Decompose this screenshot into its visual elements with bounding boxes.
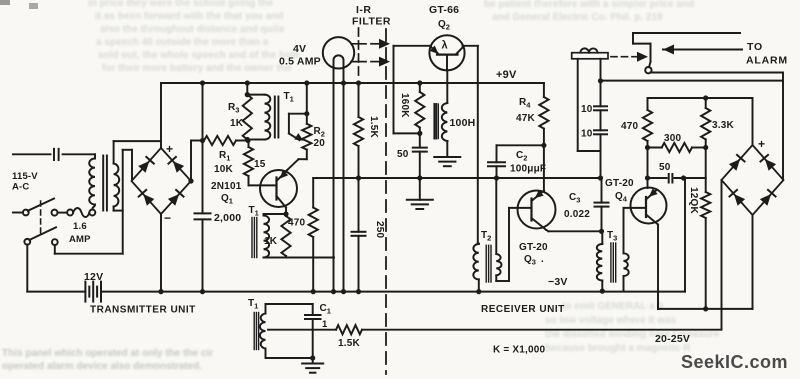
wire base Q1 [249,184,277,186]
label 50 rx [659,162,671,173]
wire C2 bottom [494,166,499,180]
arrow dash 2 [371,57,390,67]
wire R2 bottom to Q1 emitter [287,150,307,170]
label 10 upper [581,104,593,115]
label 4V [293,43,306,55]
capacitor 250 [352,232,366,236]
wire Q4 emitter [647,178,649,188]
transistor Q3 GT-20 [518,190,556,230]
label T3 [607,230,617,243]
wire top rail [161,82,544,84]
wire BR1 bottom down [160,214,162,292]
wire Q3 collector to C3 [546,229,604,234]
label 50 mid [397,149,409,160]
svg-text:100H: 100H [450,117,476,129]
label RECEIVER UNIT [481,304,565,315]
capacitor C2 100uuF [488,162,505,166]
transformer T core [103,156,107,211]
svg-text:Q1: Q1 [221,193,233,206]
wire stub left of S1a [13,212,23,214]
arrow dash 1 [371,39,390,49]
label C1 [320,303,331,316]
label 100uuF [510,164,546,175]
label 2,000 [214,212,241,224]
resistor 470 osc [309,178,318,294]
wire relay left lead [578,59,601,151]
watermark SeekIC.com [681,352,788,373]
transformer T3 primary [597,231,605,293]
wire 115V AC input top [13,153,51,155]
battery 12V [85,282,101,302]
capacitor 50 rx [648,174,706,183]
transistor Q1 [260,170,297,214]
wire 470/3.3K top [648,97,753,99]
ground under 100H [434,141,460,166]
transformer T1 bottom core [254,313,258,350]
label + BR1 [166,142,173,156]
wire bottom rail [101,178,685,294]
transformer T2 core [486,245,491,282]
wire R4 to Q3 emitter [543,145,545,190]
svg-text:0.022: 0.022 [564,209,590,220]
diode BR1 bottom-left [139,190,155,206]
relay switch contact [645,62,651,74]
wire S1b to battery [26,245,28,292]
wire T2 sec top [495,178,497,254]
label 1.5K bottom [338,338,361,349]
label + BR2 [758,137,765,151]
svg-text:Q4: Q4 [615,191,628,204]
label TRANSMITTER UNIT [90,305,196,316]
label 300 [664,133,682,144]
wire T1b top to C1 [266,304,313,315]
transformer T3 secondary [624,253,629,276]
resistor 160K [415,80,424,133]
faint scan bleed-through text top right [484,0,694,10]
wire T1 mid top [264,214,287,216]
svg-text:47K: 47K [516,113,536,124]
label 250 rot [374,221,385,239]
capacitor AC input series [54,149,59,160]
resistor 3.3K [701,95,710,150]
svg-text:GT-66: GT-66 [429,4,459,16]
svg-text:A-C: A-C [12,182,30,193]
wire 3.3K junction down to 12QK [705,148,707,193]
label FILTER [352,16,391,28]
lamp 4V 0.5AMP [323,37,354,68]
svg-text:15: 15 [254,159,266,170]
label 20-25V [655,333,690,345]
switch S1b right contact [52,239,58,245]
label Q1 [221,193,233,206]
svg-text:T1: T1 [284,91,294,104]
label R3 [228,102,239,115]
fuse 1.6A [52,208,96,217]
capacitor C3 0.022 [595,178,609,231]
wire alarm arrow [663,45,742,55]
label GT-20 Q4 [605,178,634,204]
corner scan marks [0,0,10,5]
resistor R1 10K [204,136,236,145]
label C2 [516,150,527,163]
label 15 [254,159,266,170]
svg-text:T1: T1 [248,298,258,311]
wire long vertical from rail to 2000 cap [200,80,205,213]
svg-text:AMP: AMP [69,234,91,245]
wire lower right bus [658,291,753,309]
wire bracket top [633,33,740,44]
svg-text:Q3: Q3 [524,254,536,267]
wire C2 top [497,145,544,162]
wire BR1 right up to R1 [188,141,193,184]
svg-text:+: + [758,137,765,151]
svg-text:C1: C1 [320,303,331,316]
svg-text:TO: TO [747,41,763,53]
label Q2 [438,19,450,32]
label TO [747,41,763,53]
faint scan bleed-through text bottom right [562,301,664,312]
inductor 100H core [434,104,438,139]
svg-text:T2: T2 [481,230,491,243]
svg-text:2,000: 2,000 [214,212,241,224]
wiper arm R2 [289,114,307,141]
diode BR2 top-left [729,155,745,171]
svg-text:50: 50 [659,162,671,173]
transformer T2 primary [473,244,478,279]
transformer T3 core [611,243,616,282]
wire lamp left lead [331,68,336,294]
svg-text:λ: λ [442,40,448,52]
label GT-20 Q3 [519,242,548,267]
label R2 [314,126,325,139]
wire relay right lead [598,59,603,107]
capacitor C1 [305,315,321,319]
label 1.5K rot [368,116,379,139]
wire rail to R3 [245,80,250,94]
wire Q2 left lead [394,46,432,134]
label T2 [481,230,491,243]
label C1 1 [322,319,328,330]
faint scan bleed-through text top left [88,0,273,9]
wire T3 sec bottom [623,276,625,291]
label R4 [519,97,531,110]
wire 2000 cap to bottom rail [200,219,205,294]
relay coil [572,48,608,58]
svg-text:GT-20: GT-20 [519,242,548,253]
resistor 1.5K bottom [336,325,362,334]
wire receiver supply rail [601,81,784,180]
transformer T1 top winding [265,95,271,140]
label R2 20 [314,138,326,149]
ground under 50 [407,200,433,209]
svg-text:FILTER: FILTER [352,16,391,28]
svg-text:1K: 1K [264,236,278,247]
svg-text:T1: T1 [249,205,259,218]
wire rail to R2 [304,80,309,116]
diode BR1 top-right [169,157,185,173]
svg-text:I-R: I-R [356,4,372,16]
wire battery row left [27,291,85,293]
label T1 mid [249,205,259,218]
svg-text:C2: C2 [516,150,527,163]
wire T2 primary bottom [476,279,481,294]
svg-text:−: − [164,211,171,225]
wire lamp right lead [341,68,346,294]
switch S1b lower [24,227,56,244]
crossbar 1 [351,43,366,45]
wire BR2 bottom down [752,215,754,309]
label GT-66 [429,4,459,16]
svg-text:TRANSMITTER UNIT: TRANSMITTER UNIT [90,305,196,316]
label T1 top [284,91,294,104]
wire switch to right [651,73,784,81]
label 10K [214,164,234,175]
resistor 12QK [701,192,710,312]
wire signal bus [313,177,601,179]
wire BR2 left down [721,180,723,330]
svg-text:R4: R4 [519,97,531,110]
wire 20-25V line [362,329,722,331]
relay switch bar [650,44,652,62]
diode BR2 bottom-right [760,190,776,206]
label 1K mid [264,236,278,247]
capacitor 50 mid [413,133,427,199]
wire T1b tap to 1.5K [268,329,336,331]
svg-text:20: 20 [314,138,326,149]
wire BR1 top to rail [160,83,162,148]
transformer T1 mid core [252,218,257,258]
label - BR1 [164,211,171,225]
label 115-V A-C [12,171,38,193]
svg-text:C3: C3 [569,192,580,205]
resistor 1K mid [281,214,290,258]
resistor 15 [244,141,253,186]
svg-text:1: 1 [322,319,328,330]
label 100H [450,117,476,129]
svg-text:10: 10 [581,129,593,140]
transformer T primary winding [89,159,95,205]
wire Q4 collector down [657,225,659,309]
bridge rectifier BR1 outline [132,148,192,214]
svg-text:1K: 1K [230,118,244,129]
svg-text:1.5K: 1.5K [338,338,361,349]
transformer T1 top core [275,97,279,138]
svg-text:470: 470 [621,121,639,132]
label 3.3K [712,120,735,131]
svg-text:10: 10 [581,104,593,115]
wire 10 lower to junction [598,134,603,180]
transistor Q2 GT-66 [429,35,464,70]
wire R1 to junction [236,138,251,143]
faint scan bleed-through text bottom left [2,348,213,359]
dashed line IR short [358,28,360,80]
wire T1/1K bottom to lamp lead [264,257,335,259]
label 2N101 [211,181,242,192]
diode BR1 bottom-right [168,190,184,206]
wire Q2 left to 160K bottom [394,131,423,136]
transistor Q4 GT-20 [631,188,667,225]
svg-text:+: + [166,142,173,156]
svg-text:R2: R2 [314,126,325,139]
label -3V [548,276,568,288]
wire 250 to bottom rail [356,236,361,294]
svg-text:4V: 4V [293,43,306,55]
resistor R4 47K [539,83,548,148]
wire BR1 to R1 [191,140,204,142]
svg-text:300: 300 [664,133,682,144]
svg-text:250: 250 [374,221,385,239]
wire 470 junction down [645,148,650,181]
label 47K [516,113,536,124]
label 0.022 [564,209,590,220]
svg-text:+9V: +9V [496,69,517,81]
dashed gang link [40,201,42,236]
ground under C1 [302,358,323,373]
wire Q1 collector junction [283,211,288,216]
svg-text:100μμF: 100μμF [510,164,546,175]
svg-text:ALARM: ALARM [746,55,788,67]
inductor 100H [442,70,447,141]
wire Q3 base [509,207,532,209]
svg-text:−3V: −3V [548,276,568,288]
label +9V [496,69,517,81]
label 10 lower [581,129,593,140]
svg-text:GT-20: GT-20 [605,178,634,189]
wire C1 down to ground [310,319,315,361]
svg-text:RECEIVER UNIT: RECEIVER UNIT [481,304,565,315]
wire secondary top to bridge [114,141,161,163]
wire fuse to primary bottom [92,205,95,210]
capacitor 10 lower [594,130,607,134]
svg-text:3.3K: 3.3K [712,120,735,131]
diode BR2 top-right [761,155,777,171]
svg-text:K = X1,000: K = X1,000 [493,345,546,356]
svg-text:1.6: 1.6 [73,221,87,232]
dashed line IR main [385,29,387,374]
capacitor 2000uF [195,213,211,219]
svg-text:2N101: 2N101 [211,181,242,192]
transformer T secondary winding [114,164,120,207]
label 12V [84,271,103,283]
capacitor 10 upper [594,106,607,110]
wire S1b contact down-right [55,245,123,254]
wire secondary bottom jog [114,207,123,211]
svg-text:T3: T3 [607,230,617,243]
label K=X1000 [493,345,546,356]
label 470 osc [288,218,306,229]
label 160K rot [399,93,410,118]
label ALARM [746,55,788,67]
label 12QK rot [688,187,699,215]
wire T2 primary top [478,243,479,245]
dashed relay to switch [611,52,648,62]
transformer T1 bottom winding [260,314,266,349]
wire BR2 top feed [752,98,754,145]
transformer T1 mid winding [264,216,270,258]
crossbar 2 [351,61,366,63]
bridge rectifier BR2 outline [722,145,784,215]
svg-text:0.5 AMP: 0.5 AMP [279,56,321,68]
svg-text:1.5K: 1.5K [368,116,379,139]
label T1 bottom [248,298,258,311]
wire up to bridge left vertex [123,150,132,254]
label R3 1K [230,118,244,129]
svg-text:12QK: 12QK [688,187,699,215]
resistor R2 20 [302,114,311,150]
svg-text:20-25V: 20-25V [655,333,690,345]
label I-R [356,4,372,16]
diode BR1 top-left [138,157,154,173]
resistor 300 [648,143,706,152]
label 470 rx [621,121,639,132]
label lambda [442,40,448,52]
wire T3 sec top to Q4 base [624,208,647,253]
resistor R3 1K [243,95,252,140]
svg-text:10K: 10K [214,164,234,175]
wire T1b bottom [266,349,313,359]
svg-text:50: 50 [397,149,409,160]
wire T2 sec bottom to Q3 base [496,208,509,281]
switch S1a upper [23,199,54,216]
transformer T2 secondary [496,254,501,275]
svg-text:160K: 160K [399,93,410,118]
svg-text:R1: R1 [219,150,230,163]
wire cap to transformer primary [63,154,95,158]
resistor 470 rx [643,98,652,150]
label 1.6 AMP [69,221,91,245]
label 0.5 AMP [279,56,321,68]
label C3 [569,192,580,205]
label R1 [219,150,230,163]
wire Q2 right lead [463,46,478,244]
svg-text:R3: R3 [228,102,239,115]
wire T1 bottom to junction [245,137,265,142]
svg-text:470: 470 [288,218,306,229]
diode BR2 bottom-left [730,190,746,206]
svg-text:Q2: Q2 [438,19,450,32]
svg-text:12V: 12V [84,271,103,283]
svg-text:.: . [541,254,544,265]
svg-text:115-V: 115-V [12,171,38,182]
wire R3 top to T1 coil [245,92,265,97]
wire between 10 caps [600,110,602,130]
resistor 1.5K mid [354,80,363,231]
